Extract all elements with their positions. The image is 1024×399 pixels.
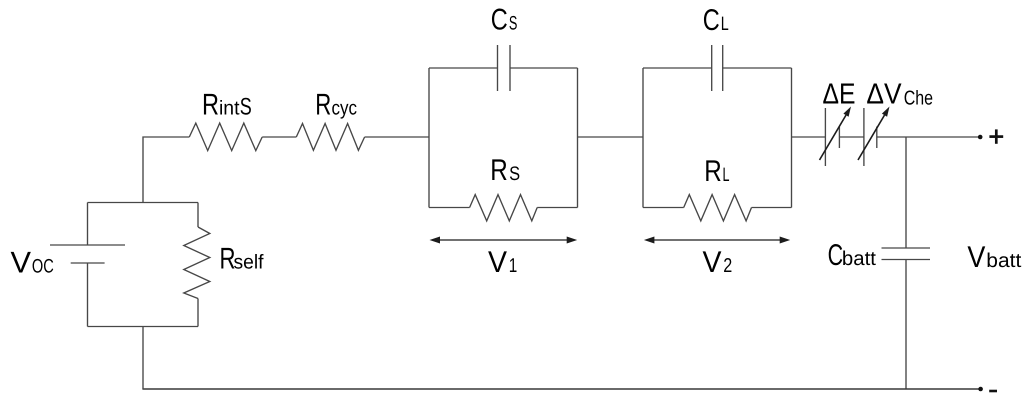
svg-text:ΔV: ΔV xyxy=(866,79,902,111)
capacitor Cbatt plates xyxy=(882,247,931,249)
wire Voc box right lower lead xyxy=(197,299,199,327)
svg-text:OC: OC xyxy=(32,256,54,278)
variable source deltaE plates xyxy=(824,108,826,166)
svg-text:S: S xyxy=(240,94,252,121)
svg-text:L: L xyxy=(723,164,730,186)
wire box2 to deltaE source xyxy=(792,136,826,138)
node box2 right vertical xyxy=(791,68,793,208)
battery Voc short plate xyxy=(71,262,105,264)
wire junction down to Cbatt xyxy=(905,137,907,248)
wire Voc box bottom side xyxy=(88,326,199,328)
battery Voc long plate xyxy=(50,244,125,246)
label deltaVChe xyxy=(866,79,933,111)
wire box2 top right segment xyxy=(723,67,792,69)
resistor Rcyc xyxy=(296,124,364,151)
resistor RL xyxy=(684,195,752,221)
node plus terminal dot xyxy=(978,135,983,140)
svg-text:ΔE: ΔE xyxy=(823,79,856,111)
label CL xyxy=(703,4,729,37)
svg-text:2: 2 xyxy=(723,255,732,277)
node box1 right vertical xyxy=(577,68,579,208)
wire box1 top left segment xyxy=(429,67,498,69)
capacitor CL plates xyxy=(711,45,713,91)
label V2 xyxy=(703,246,733,279)
svg-text:V: V xyxy=(967,241,985,274)
wire deltaVChe to plus terminal xyxy=(877,136,980,138)
wire between RintS and Rcyc xyxy=(262,136,296,138)
svg-text:V: V xyxy=(703,246,722,279)
svg-text:L: L xyxy=(721,13,729,35)
node minus terminal dot xyxy=(978,387,983,392)
label Vbatt xyxy=(967,241,1021,274)
svg-text:batt: batt xyxy=(986,250,1021,272)
label deltaE xyxy=(823,79,856,111)
label Rcyc xyxy=(315,89,357,122)
wire between deltaE and deltaVChe xyxy=(839,136,864,138)
svg-text:V: V xyxy=(11,247,32,280)
label RS xyxy=(490,154,520,187)
wire box1 top right segment xyxy=(510,67,578,69)
wire box2 top left segment xyxy=(643,67,712,69)
svg-text:C: C xyxy=(491,4,508,37)
capacitor CS plates xyxy=(497,45,499,91)
wire Voc box left lower xyxy=(87,263,89,327)
wire box2 bottom right lead xyxy=(752,207,792,209)
svg-text:S: S xyxy=(509,13,518,35)
svg-text:R: R xyxy=(490,154,508,187)
plus sign xyxy=(989,129,1003,143)
label Voc xyxy=(11,247,54,280)
wire box2 bottom left lead xyxy=(643,207,684,209)
node box1 left vertical xyxy=(428,68,430,208)
resistor Rself xyxy=(184,227,210,299)
wire Voc box left upper xyxy=(87,203,89,246)
svg-text:1: 1 xyxy=(509,255,518,277)
label Rself xyxy=(220,243,264,276)
svg-text:R: R xyxy=(315,89,331,122)
wire box1 bottom left lead xyxy=(429,207,470,209)
arrow of deltaE xyxy=(820,107,852,161)
svg-text:C: C xyxy=(703,4,720,37)
arrow V2 span xyxy=(644,237,790,244)
wire box1 bottom right lead xyxy=(537,207,577,209)
svg-text:cyc: cyc xyxy=(332,98,358,120)
label V1 xyxy=(488,246,517,279)
arrow of deltaVChe xyxy=(858,107,890,161)
label RintS xyxy=(202,89,252,122)
svg-text:batt: batt xyxy=(842,248,876,270)
svg-text:self: self xyxy=(234,252,264,274)
svg-text:C: C xyxy=(828,239,844,272)
wire top-left corner from Voc box to RintS xyxy=(143,137,189,203)
label CS xyxy=(491,4,518,37)
svg-text:R: R xyxy=(704,155,722,188)
svg-text:int: int xyxy=(219,98,240,120)
svg-text:S: S xyxy=(509,163,520,185)
node box2 left vertical xyxy=(642,68,644,208)
svg-text:V: V xyxy=(488,246,507,279)
wire Rcyc to RC box 1 xyxy=(365,136,429,138)
wire between box1 and box2 xyxy=(578,136,644,138)
wire bottom rail xyxy=(142,388,980,390)
variable source deltaVChe plates xyxy=(863,108,865,166)
resistor RS xyxy=(470,195,538,221)
wire Voc box bottom to rail xyxy=(142,327,144,390)
resistor RintS xyxy=(189,123,262,151)
wire Voc box top side xyxy=(88,202,199,204)
minus sign xyxy=(989,390,997,393)
label Cbatt xyxy=(828,239,877,272)
wire Voc box right upper lead xyxy=(197,203,199,228)
wire Cbatt to bottom rail xyxy=(905,260,907,390)
svg-text:Che: Che xyxy=(904,88,933,110)
arrow V1 span xyxy=(430,237,578,244)
svg-text:R: R xyxy=(202,89,219,122)
label RL xyxy=(704,155,729,188)
